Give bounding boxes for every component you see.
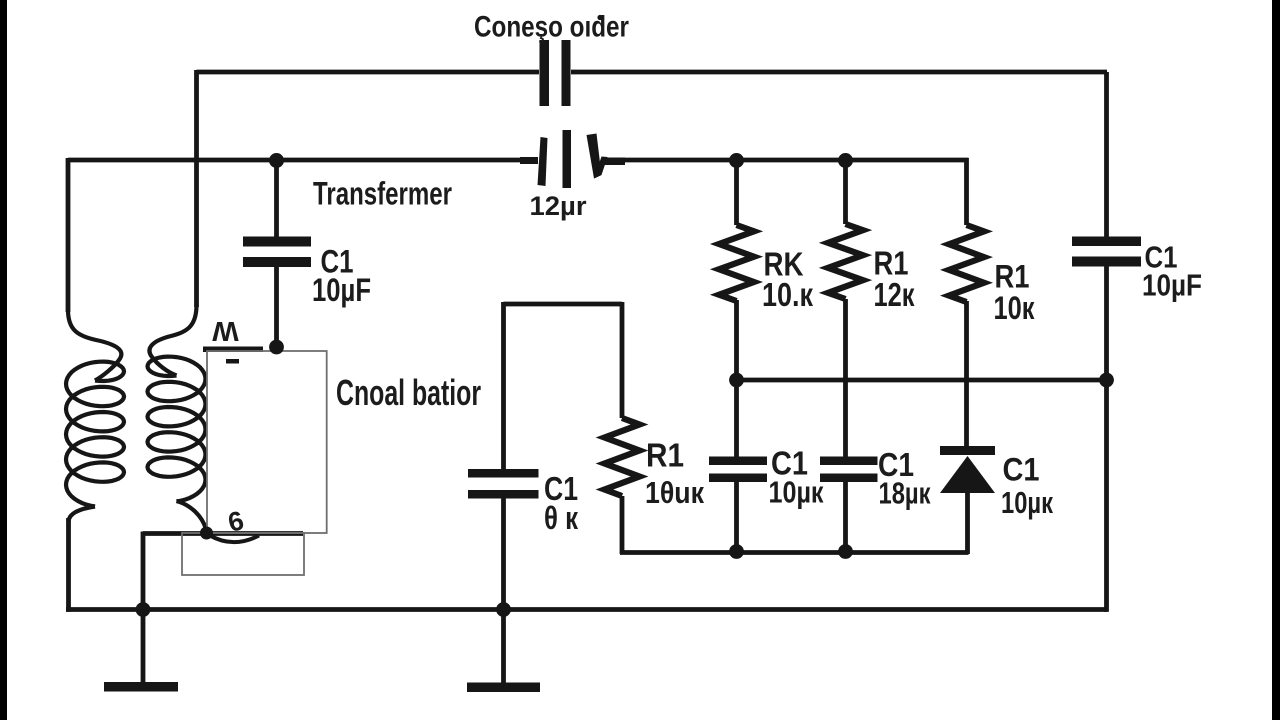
svg-text:18µк: 18µк — [879, 476, 931, 511]
svg-text:10µF: 10µF — [1142, 268, 1202, 303]
svg-text:1θuк: 1θuк — [645, 475, 704, 510]
svg-text:10µк: 10µк — [769, 475, 824, 510]
svg-text:10µF: 10µF — [312, 272, 371, 308]
svg-text:θ к: θ к — [544, 500, 579, 536]
svg-text:R1: R1 — [646, 437, 684, 474]
svg-text:Coneşo oıder: Coneşo oıder — [474, 11, 629, 44]
svg-text:10.к: 10.к — [762, 276, 813, 313]
svg-text:C1: C1 — [1003, 452, 1040, 488]
svg-text:10µк: 10µк — [1001, 485, 1053, 520]
svg-text:W: W — [212, 316, 239, 347]
svg-text:Transfermer: Transfermer — [313, 176, 452, 212]
svg-text:Cnoal batior: Cnoal batior — [336, 372, 481, 413]
svg-text:12к: 12к — [874, 276, 915, 313]
svg-text:12µr: 12µr — [530, 191, 587, 221]
svg-text:10к: 10к — [994, 290, 1036, 326]
